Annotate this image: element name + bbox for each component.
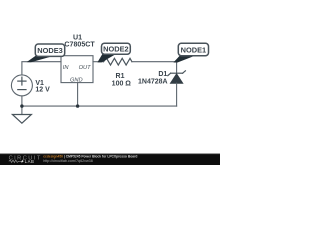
wire V1 top to IN pin xyxy=(22,62,61,75)
svg-text:12 V: 12 V xyxy=(35,87,50,94)
svg-text:http://circuitlab.com/7q62vw38: http://circuitlab.com/7q62vw38 xyxy=(43,159,93,163)
diode D1 zener xyxy=(168,71,186,106)
wire R1 to node corner xyxy=(132,62,177,73)
node NODE3 label xyxy=(27,44,65,62)
wire OUT pin to R1 xyxy=(93,61,104,63)
footer bar xyxy=(0,154,220,166)
wire GND pin down xyxy=(77,83,79,107)
svg-text:IN: IN xyxy=(63,65,70,71)
svg-text:LAB: LAB xyxy=(25,159,35,164)
junction dot GND pin xyxy=(76,104,79,107)
svg-text:1N4728A: 1N4728A xyxy=(138,79,168,86)
wire V1 bottom to ground xyxy=(21,96,23,115)
svg-text:C7805CT: C7805CT xyxy=(64,41,95,49)
junction dot V1 bottom xyxy=(20,104,23,107)
CircuitLab logo xyxy=(9,155,42,164)
svg-text:R1: R1 xyxy=(116,73,125,80)
wire bottom rail xyxy=(22,105,177,107)
node NODE1 label xyxy=(173,43,208,62)
svg-text:NODE3: NODE3 xyxy=(37,46,62,55)
node NODE2 label xyxy=(97,43,130,62)
voltage source V1 xyxy=(11,75,32,96)
svg-text:100 Ω: 100 Ω xyxy=(112,81,132,88)
svg-text:D1: D1 xyxy=(158,71,167,78)
svg-text:GND: GND xyxy=(70,77,83,83)
ground xyxy=(12,115,31,124)
resistor R1 xyxy=(104,58,132,65)
svg-text:ccdesign450 | CMP5245 Power Bl: ccdesign450 | CMP5245 Power Block for LP… xyxy=(43,155,137,159)
svg-text:OUT: OUT xyxy=(79,65,92,71)
op-amp U1 regulator box xyxy=(61,56,93,83)
svg-text:NODE1: NODE1 xyxy=(181,46,206,55)
svg-text:NODE2: NODE2 xyxy=(103,45,128,54)
